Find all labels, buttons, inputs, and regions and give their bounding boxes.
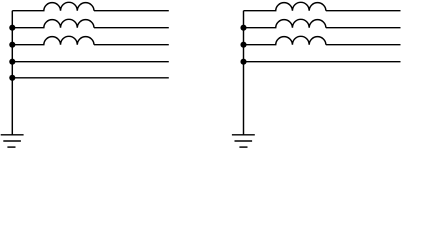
- inductor right L4: [244, 2, 326, 10]
- node junction dot left wire2: [9, 25, 15, 31]
- node junction dot right wire3: [240, 42, 246, 48]
- wire L2 right lead: [94, 27, 169, 29]
- wire L4 right lead: [326, 10, 401, 12]
- node junction dot left wire4: [9, 59, 15, 65]
- bus wire left vertical: [11, 11, 13, 135]
- wire L1 right lead: [94, 10, 169, 12]
- ground right: [232, 135, 255, 147]
- wire L3 right lead: [94, 44, 169, 46]
- wire right row 4: [244, 61, 401, 63]
- inductor right L6: [244, 36, 326, 44]
- wire left row 4: [12, 61, 169, 63]
- wire L5 right lead: [326, 27, 401, 29]
- bus wire right vertical: [243, 11, 245, 135]
- node junction dot left wire3: [9, 42, 15, 48]
- ground left: [1, 135, 24, 147]
- inductor right L5: [244, 19, 326, 27]
- node junction dot right wire2: [240, 25, 246, 31]
- wire L6 right lead: [326, 44, 401, 46]
- inductor left L1: [12, 2, 94, 10]
- node junction dot right wire4: [240, 59, 246, 65]
- inductor left L2: [12, 19, 94, 27]
- wire left row 5: [12, 77, 169, 79]
- node junction dot left wire5: [9, 75, 15, 81]
- inductor left L3: [12, 36, 94, 44]
